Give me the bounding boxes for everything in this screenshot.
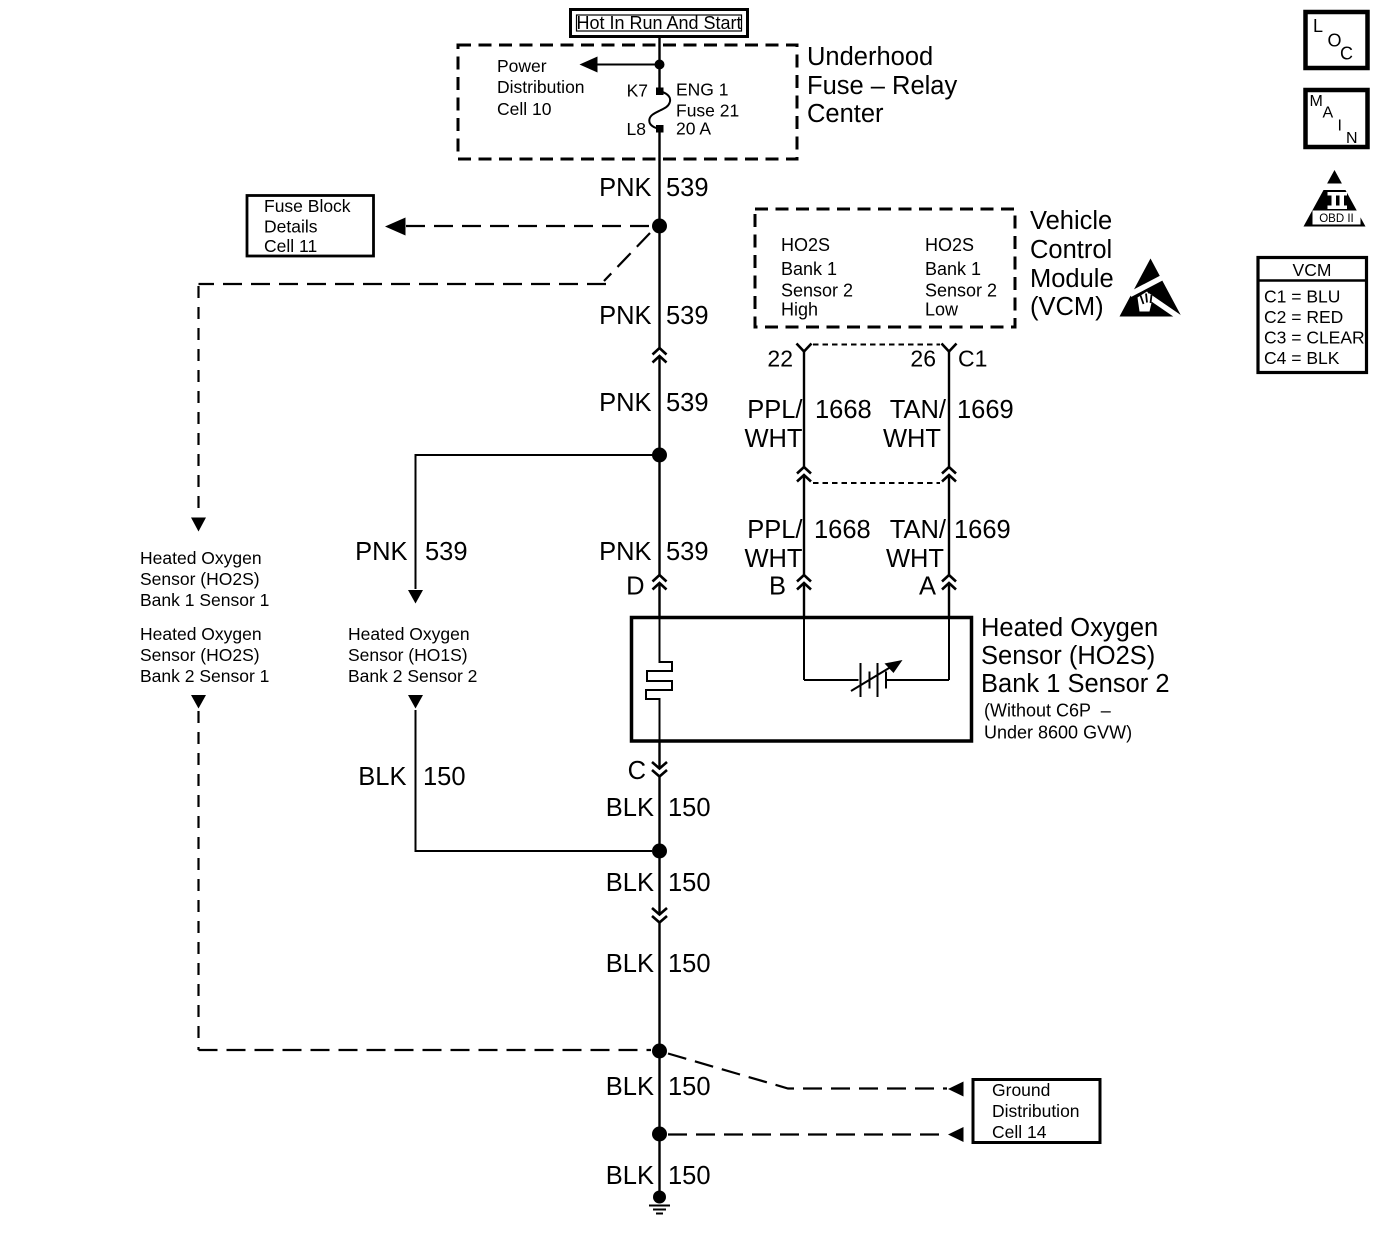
dashed reference to Ground Distribution (lower) xyxy=(668,1127,964,1142)
Vehicle Control Module (VCM) dashed box xyxy=(755,209,1015,327)
wire BLK 150 (splice to ground) xyxy=(658,923,660,1193)
svg-text:150: 150 xyxy=(668,950,711,978)
svg-text:WHT: WHT xyxy=(744,425,802,453)
svg-text:WHT: WHT xyxy=(883,425,941,453)
Ground Distribution Cell 14 box xyxy=(973,1080,1100,1143)
svg-text:22: 22 xyxy=(767,346,793,372)
svg-text:TAN/: TAN/ xyxy=(890,516,947,544)
LOC reference box xyxy=(1306,12,1368,68)
svg-text:Bank 1 Sensor 2: Bank 1 Sensor 2 xyxy=(981,670,1170,698)
label PPL/WHT 1668 (upper) xyxy=(744,396,871,453)
pin D chevrons xyxy=(653,575,667,590)
connector pin Y-mark: pin 22 xyxy=(797,344,812,352)
svg-text:Cell 14: Cell 14 xyxy=(992,1122,1047,1142)
svg-text:Heated Oxygen: Heated Oxygen xyxy=(140,624,262,644)
svg-text:C4 = BLK: C4 = BLK xyxy=(1264,348,1340,368)
svg-text:BLK: BLK xyxy=(606,950,654,978)
svg-text:1669: 1669 xyxy=(954,516,1011,544)
power label box: Hot In Run And Start xyxy=(571,10,748,37)
svg-text:PNK: PNK xyxy=(355,538,407,566)
label: Vehicle Control Module (VCM) xyxy=(1030,207,1114,321)
svg-text:539: 539 xyxy=(666,389,709,417)
svg-text:Cell 10: Cell 10 xyxy=(497,99,552,119)
label TAN/WHT 1669 (upper) xyxy=(883,396,1014,453)
Fuse Block Details Cell 11 box xyxy=(247,196,374,257)
wire PNK 539 (fuse to splice) xyxy=(658,129,660,348)
label: Underhood Fuse - Relay Center xyxy=(807,43,957,128)
svg-text:PPL/: PPL/ xyxy=(747,396,803,424)
svg-text:VCM: VCM xyxy=(1293,260,1332,280)
svg-text:HO2S: HO2S xyxy=(781,235,830,255)
svg-text:PNK: PNK xyxy=(599,538,651,566)
svg-text:1668: 1668 xyxy=(815,396,872,424)
svg-text:BLK: BLK xyxy=(606,869,654,897)
wire pin A into sensor box xyxy=(948,583,950,619)
svg-text:Low: Low xyxy=(925,300,959,320)
heater element (inside HO2S) xyxy=(646,619,672,742)
svg-text:High: High xyxy=(781,300,818,320)
VCM connector legend table xyxy=(1258,258,1367,373)
svg-text:Power: Power xyxy=(497,56,547,76)
pin A chevrons xyxy=(942,575,956,590)
svg-text:150: 150 xyxy=(668,1073,711,1101)
svg-text:150: 150 xyxy=(423,763,466,791)
svg-text:BLK: BLK xyxy=(358,763,406,791)
svg-text:Module: Module xyxy=(1030,265,1114,293)
wire PPL/WHT 1668 (splice to pin B) xyxy=(803,475,805,575)
svg-text:Underhood: Underhood xyxy=(807,43,933,71)
svg-text:150: 150 xyxy=(668,794,711,822)
svg-text:Fuse 21: Fuse 21 xyxy=(676,101,739,121)
svg-text:Distribution: Distribution xyxy=(992,1101,1080,1121)
svg-text:Sensor 2: Sensor 2 xyxy=(781,281,853,301)
svg-text:539: 539 xyxy=(666,174,709,202)
svg-text:Sensor (HO2S): Sensor (HO2S) xyxy=(140,645,260,665)
svg-text:BLK: BLK xyxy=(606,1073,654,1101)
svg-text:M: M xyxy=(1310,93,1323,110)
dashed reference to Ground Distribution (upper) xyxy=(668,1054,964,1097)
svg-text:539: 539 xyxy=(666,538,709,566)
splice chevrons on TAN/WHT wire xyxy=(942,467,956,482)
svg-text:Bank 1 Sensor 1: Bank 1 Sensor 1 xyxy=(140,590,269,610)
wire TAN/WHT 1669 (pin 26 to splice) xyxy=(948,352,950,468)
svg-text:Fuse Block: Fuse Block xyxy=(264,196,351,216)
dashed reference link to HO2S Bank 1 Sensor 1 xyxy=(191,233,650,532)
wire PPL/WHT 1668 (pin 22 to splice) xyxy=(803,352,805,468)
wire PNK 539 branch to HO1S Bank 2 Sensor 2 xyxy=(408,455,660,604)
svg-text:PNK: PNK xyxy=(599,174,651,202)
pin B chevrons xyxy=(797,575,811,590)
label PNK 539 (branch) xyxy=(355,538,467,566)
svg-text:Bank 1: Bank 1 xyxy=(781,259,837,279)
svg-text:Sensor (HO2S): Sensor (HO2S) xyxy=(981,642,1155,670)
svg-text:Bank 1: Bank 1 xyxy=(925,259,981,279)
svg-text:Heated Oxygen: Heated Oxygen xyxy=(140,548,262,568)
svg-text:C: C xyxy=(628,757,646,785)
svg-text:20 A: 20 A xyxy=(676,119,711,139)
svg-text:150: 150 xyxy=(668,1162,711,1190)
wire: arrow to Power Distribution xyxy=(580,57,660,73)
dashed in-line connector outline xyxy=(813,345,940,484)
svg-text:(VCM): (VCM) xyxy=(1030,293,1104,321)
splice chevrons on BLK 150 wire xyxy=(652,908,667,923)
dashed wire from HO2S Bank 2 Sensor 1 to ground splice xyxy=(199,711,652,1050)
connector pin Y-mark: pin 26 xyxy=(942,344,957,352)
svg-text:C1 = BLU: C1 = BLU xyxy=(1264,287,1340,307)
svg-text:539: 539 xyxy=(666,302,709,330)
svg-text:OBD II: OBD II xyxy=(1319,213,1354,225)
svg-text:L8: L8 xyxy=(627,119,646,139)
svg-text:1668: 1668 xyxy=(814,516,871,544)
wire BLK 150 (pin C to splice) xyxy=(658,777,660,915)
svg-text:PNK: PNK xyxy=(599,302,651,330)
svg-text:Details: Details xyxy=(264,217,318,237)
svg-text:Fuse – Relay: Fuse – Relay xyxy=(807,72,957,100)
svg-text:C: C xyxy=(1340,44,1353,64)
svg-text:Sensor 2: Sensor 2 xyxy=(925,281,997,301)
dashed arrow to Fuse Block Details xyxy=(385,218,650,236)
svg-text:Under 8600 GVW): Under 8600 GVW) xyxy=(984,723,1132,743)
svg-text:L: L xyxy=(1313,16,1323,36)
svg-text:Vehicle: Vehicle xyxy=(1030,207,1112,235)
node: PNK 539 branch junction xyxy=(652,448,667,463)
arrow from HO1S Bank 2 Sensor 2 label xyxy=(408,695,423,709)
wire BLK 150 (box to pin C) xyxy=(658,742,660,769)
Underhood Fuse-Relay Center dashed box xyxy=(458,45,797,159)
svg-text:C1: C1 xyxy=(958,346,987,372)
sensor element (variable cell with arrow) xyxy=(804,619,949,697)
svg-text:Control: Control xyxy=(1030,236,1112,264)
label: Heated Oxygen Sensor (HO1S) Bank 2 Sensor 2 xyxy=(348,624,477,686)
svg-text:1669: 1669 xyxy=(957,396,1014,424)
svg-text:B: B xyxy=(769,573,786,601)
node: fuse block details tap xyxy=(652,219,667,234)
svg-text:I: I xyxy=(1338,118,1342,135)
wire pin D into sensor box xyxy=(658,583,660,619)
svg-text:WHT: WHT xyxy=(744,545,802,573)
pin C chevrons xyxy=(652,762,667,777)
label: HO2S Bank 1 Sensor 2 High xyxy=(781,235,853,320)
svg-text:BLK: BLK xyxy=(606,794,654,822)
MAIN reference box xyxy=(1306,90,1368,147)
ground G103 xyxy=(649,1191,670,1214)
svg-text:BLK: BLK xyxy=(606,1162,654,1190)
svg-text:(Without C6P –: (Without C6P – xyxy=(984,701,1111,721)
svg-text:ENG 1: ENG 1 xyxy=(676,80,729,100)
svg-text:Center: Center xyxy=(807,100,884,128)
fuse ENG 1 Fuse 21 20 A (terminals K7 / L8) xyxy=(649,88,670,133)
label TAN/WHT 1669 (lower) xyxy=(886,516,1011,573)
svg-text:C2 = RED: C2 = RED xyxy=(1264,307,1343,327)
svg-text:Sensor (HO1S): Sensor (HO1S) xyxy=(348,645,468,665)
svg-text:Distribution: Distribution xyxy=(497,77,585,97)
svg-text:Cell 11: Cell 11 xyxy=(264,236,317,256)
label BLK 150 (branch) xyxy=(358,763,465,791)
splice chevrons on PPL/WHT wire xyxy=(797,467,811,482)
node: power distribution tap junction xyxy=(655,60,665,70)
label: ENG 1 Fuse 21 20 A xyxy=(676,80,739,139)
svg-text:26: 26 xyxy=(910,346,936,372)
label BLK 150 xyxy=(606,950,711,978)
svg-text:539: 539 xyxy=(425,538,468,566)
svg-text:Ground: Ground xyxy=(992,1080,1050,1100)
svg-text:PPL/: PPL/ xyxy=(747,516,803,544)
svg-text:K7: K7 xyxy=(627,81,648,101)
svg-text:Heated Oxygen: Heated Oxygen xyxy=(981,614,1158,642)
node: BLK 150 branch junction xyxy=(652,844,667,859)
svg-text:Hot In Run And Start: Hot In Run And Start xyxy=(576,13,741,33)
label PNK 539 xyxy=(599,389,708,417)
label: Heated Oxygen Sensor (HO2S) Bank 1 Sensor 1 xyxy=(140,548,269,610)
svg-text:A: A xyxy=(919,573,936,601)
arrow from HO2S Bank 2 Sensor 1 label xyxy=(191,695,206,709)
svg-text:PNK: PNK xyxy=(599,389,651,417)
wire: feed from Hot In Run And Start into fuse xyxy=(658,36,660,91)
svg-text:TAN/: TAN/ xyxy=(890,396,947,424)
node: ground distribution tap 2 xyxy=(652,1127,667,1142)
label BLK 150 xyxy=(606,1162,711,1190)
wire PNK 539 (splice to HO2S box) xyxy=(658,356,660,575)
svg-text:N: N xyxy=(1346,130,1358,147)
Heated Oxygen Sensor (HO2S) Bank 1 Sensor 2 box xyxy=(632,618,972,742)
svg-text:C3 = CLEAR: C3 = CLEAR xyxy=(1264,328,1365,348)
label PNK 539 xyxy=(599,174,708,202)
wire pin B into sensor box xyxy=(803,583,805,619)
wire BLK 150 branch from HO1S label to splice xyxy=(416,710,653,851)
wire TAN/WHT 1669 (splice to pin A) xyxy=(948,475,950,575)
label BLK 150 xyxy=(606,1073,711,1101)
svg-text:Bank 2 Sensor 1: Bank 2 Sensor 1 xyxy=(140,666,269,686)
svg-text:Sensor (HO2S): Sensor (HO2S) xyxy=(140,569,260,589)
label BLK 150 xyxy=(606,869,711,897)
label: Heated Oxygen Sensor (HO2S) Bank 1 Sensor 2 xyxy=(981,614,1170,743)
label PPL/WHT 1668 (lower) xyxy=(744,516,870,573)
ESD sensitivity symbol xyxy=(1120,259,1182,319)
label: Heated Oxygen Sensor (HO2S) Bank 2 Sensor 1 xyxy=(140,624,269,686)
svg-text:150: 150 xyxy=(668,869,711,897)
OBD II symbol xyxy=(1300,170,1369,227)
label: Power Distribution Cell 10 xyxy=(497,56,585,119)
splice chevrons on PNK 539 wire xyxy=(653,348,667,363)
label BLK 150 xyxy=(606,794,711,822)
label: HO2S Bank 1 Sensor 2 Low xyxy=(925,235,997,320)
svg-text:D: D xyxy=(626,573,644,601)
node: ground distribution tap 1 xyxy=(652,1044,667,1059)
svg-text:Bank 2 Sensor 2: Bank 2 Sensor 2 xyxy=(348,666,477,686)
label PNK 539 (main, at pin D) xyxy=(599,538,708,566)
svg-text:WHT: WHT xyxy=(886,545,944,573)
label PNK 539 xyxy=(599,302,708,330)
svg-text:A: A xyxy=(1323,105,1334,122)
svg-text:HO2S: HO2S xyxy=(925,235,974,255)
svg-text:Heated Oxygen: Heated Oxygen xyxy=(348,624,470,644)
